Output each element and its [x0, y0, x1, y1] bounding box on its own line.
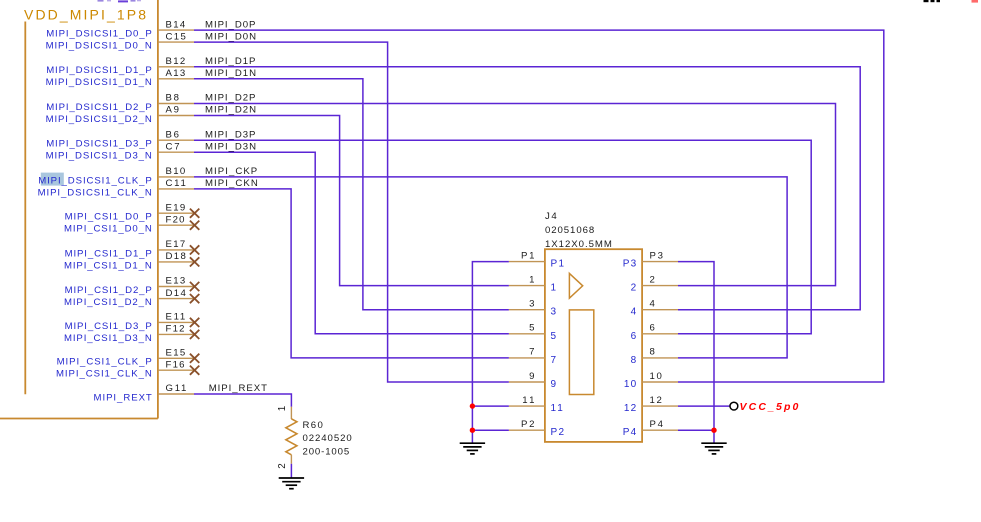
svg-text:E15: E15 [166, 348, 186, 359]
J4 pin 4 (right) [631, 299, 678, 318]
svg-text:2: 2 [277, 463, 288, 468]
pin B6 MIPI_DSICSI1_D3_P [46, 129, 194, 149]
svg-text:MIPI_D2P: MIPI_D2P [205, 93, 255, 104]
wire left GND bus [472, 262, 509, 444]
svg-text:MIPI_D3P: MIPI_D3P [205, 129, 255, 140]
svg-text:MIPI_CKP: MIPI_CKP [205, 166, 257, 177]
J4 pin 10 (right) [624, 371, 678, 390]
svg-text:2: 2 [650, 274, 655, 285]
J4 pin P3 (right) [623, 250, 678, 269]
svg-text:MIPI_CSI1_D2_N: MIPI_CSI1_D2_N [64, 297, 152, 308]
svg-text:MIPI_D0N: MIPI_D0N [205, 31, 256, 42]
svg-text:9: 9 [529, 371, 534, 382]
pin F20 MIPI_CSI1_D0_N [64, 214, 199, 234]
ground right of J4 [701, 443, 726, 454]
svg-text:E11: E11 [166, 312, 186, 323]
ground below R60 [279, 478, 304, 489]
J4 pin 3 (left) [509, 299, 557, 318]
pin E17 MIPI_CSI1_D1_P [65, 239, 200, 259]
pin C15 MIPI_DSICSI1_D0_N [46, 31, 194, 51]
highlight on MIPI of MIPI_DSICSI1_CLK_P [41, 173, 64, 186]
resistor R60 pin 1 stub [290, 407, 292, 419]
J4 key rectangle [569, 310, 593, 395]
svg-text:11: 11 [551, 403, 564, 414]
svg-text:10: 10 [650, 371, 662, 382]
svg-text:D14: D14 [166, 288, 187, 299]
cropped black text remnant top-right [924, 0, 941, 2]
connector J4 body [545, 249, 642, 442]
svg-text:3: 3 [551, 307, 557, 318]
svg-text:D18: D18 [166, 251, 186, 262]
J4 polarity triangle [569, 273, 582, 298]
svg-text:MIPI_DSICSI1_CLK_N: MIPI_DSICSI1_CLK_N [38, 187, 152, 198]
svg-text:C15: C15 [166, 31, 186, 42]
svg-text:12: 12 [624, 403, 637, 414]
svg-text:E17: E17 [166, 239, 186, 250]
wire MIPI_D0P [194, 30, 884, 382]
junction P2 [470, 428, 475, 433]
svg-text:E19: E19 [166, 202, 186, 213]
wire MIPI_D3N [194, 152, 509, 334]
svg-text:8: 8 [650, 347, 655, 358]
svg-text:B12: B12 [166, 56, 186, 67]
svg-text:1: 1 [277, 406, 288, 411]
cropped purple net-label remnant top-left [98, 0, 142, 2]
wire MIPI_D2N [194, 116, 509, 286]
J4 pin 9 (left) [509, 371, 557, 390]
J4 pin 12 (right) [624, 395, 678, 414]
pin B8 MIPI_DSICSI1_D2_P [46, 93, 194, 113]
wire MIPI_D0N [194, 42, 509, 382]
pin E11 MIPI_CSI1_D3_P [65, 312, 200, 332]
svg-text:A13: A13 [166, 68, 186, 79]
svg-text:2: 2 [631, 283, 637, 294]
svg-text:R60: R60 [303, 420, 323, 431]
svg-text:8: 8 [631, 355, 637, 366]
svg-text:VDD_MIPI_1P8: VDD_MIPI_1P8 [24, 7, 146, 23]
svg-text:6: 6 [631, 331, 637, 342]
wire R60 to ground [290, 464, 292, 478]
wire MIPI_D1P [194, 67, 860, 310]
svg-text:7: 7 [551, 355, 557, 366]
svg-text:P1: P1 [551, 259, 565, 270]
svg-text:MIPI_CSI1_D1_P: MIPI_CSI1_D1_P [65, 248, 152, 259]
svg-text:E13: E13 [166, 276, 186, 287]
cropped red mark top-right [972, 0, 979, 3]
wire MIPI_CKN [194, 189, 509, 358]
svg-text:F16: F16 [166, 359, 185, 370]
pin E13 MIPI_CSI1_D2_P [65, 276, 200, 296]
svg-text:B10: B10 [166, 166, 186, 177]
resistor R60 pin 2 stub [290, 455, 292, 464]
svg-text:MIPI_DSICSI1_D0_P: MIPI_DSICSI1_D0_P [46, 29, 152, 40]
J4 pin P4 (right) [623, 419, 678, 438]
svg-text:11: 11 [522, 395, 534, 406]
junction pin11 [470, 403, 475, 408]
svg-text:J4: J4 [545, 211, 557, 222]
J4 pin 6 (right) [631, 323, 678, 342]
svg-text:MIPI_D1P: MIPI_D1P [205, 56, 255, 67]
wire pin11 to bus [472, 405, 509, 407]
pin C7 MIPI_DSICSI1_D3_N [46, 141, 194, 161]
wire P2 to bus [472, 429, 509, 431]
svg-text:F12: F12 [166, 324, 185, 335]
svg-text:MIPI_CSI1_CLK_P: MIPI_CSI1_CLK_P [57, 357, 152, 368]
J4 pin P2 (left) [509, 419, 565, 438]
wire pin12 to VCC [678, 405, 730, 407]
J4 pin 2 (right) [631, 274, 678, 293]
svg-text:3: 3 [529, 299, 534, 310]
power net VDD_MIPI_1P8 vertical line [24, 22, 26, 395]
pin F12 MIPI_CSI1_D3_N [64, 324, 199, 344]
pin B12 MIPI_DSICSI1_D1_P [46, 56, 194, 76]
svg-text:B14: B14 [166, 19, 186, 30]
svg-text:MIPI_DSICSI1_CLK_P: MIPI_DSICSI1_CLK_P [38, 175, 152, 186]
svg-text:MIPI_DSICSI1_D3_N: MIPI_DSICSI1_D3_N [46, 151, 152, 162]
IC part body bottom edge [0, 418, 158, 420]
svg-text:MIPI_CKN: MIPI_CKN [205, 178, 258, 189]
svg-text:MIPI_CSI1_D3_P: MIPI_CSI1_D3_P [65, 321, 152, 332]
svg-text:MIPI_CSI1_D2_P: MIPI_CSI1_D2_P [65, 285, 152, 296]
pin A9 MIPI_DSICSI1_D2_N [46, 105, 194, 125]
J4 pin 5 (left) [509, 323, 557, 342]
pin B10 MIPI_DSICSI1_CLK_P [38, 166, 194, 186]
svg-text:5: 5 [551, 331, 557, 342]
J4 pin P1 (left) [509, 250, 565, 269]
svg-text:4: 4 [631, 307, 637, 318]
svg-text:MIPI_D2N: MIPI_D2N [205, 105, 256, 116]
wire right GND bus [678, 262, 714, 444]
J4 pin 7 (left) [509, 347, 557, 366]
svg-text:P3: P3 [623, 259, 637, 270]
svg-text:MIPI_CSI1_D1_N: MIPI_CSI1_D1_N [64, 260, 152, 271]
svg-text:02240520: 02240520 [303, 433, 352, 444]
svg-text:MIPI_REXT: MIPI_REXT [209, 383, 267, 394]
J4 pin 8 (right) [631, 347, 678, 366]
J4 pin 11 (left) [509, 395, 563, 414]
resistor R60 body zigzag [286, 419, 297, 455]
svg-text:7: 7 [529, 347, 534, 358]
wire MIPI_D3P [194, 140, 811, 334]
svg-text:1: 1 [529, 274, 534, 285]
svg-text:6: 6 [650, 323, 655, 334]
pin G11 MIPI_REXT [94, 383, 195, 403]
svg-text:MIPI_CSI1_D3_N: MIPI_CSI1_D3_N [64, 333, 152, 344]
pin E15 MIPI_CSI1_CLK_P [57, 348, 200, 368]
svg-text:1X12X0.5MM: 1X12X0.5MM [545, 239, 612, 250]
junction P4 [711, 428, 716, 433]
pin C11 MIPI_DSICSI1_CLK_N [38, 178, 194, 198]
wire MIPI_REXT [194, 394, 291, 407]
svg-text:G11: G11 [166, 383, 187, 394]
svg-text:MIPI_DSICSI1_D3_P: MIPI_DSICSI1_D3_P [46, 139, 152, 150]
svg-text:4: 4 [650, 299, 656, 310]
wire MIPI_CKP [194, 177, 787, 358]
svg-text:9: 9 [551, 379, 557, 390]
svg-text:MIPI_DSICSI1_D0_N: MIPI_DSICSI1_D0_N [46, 41, 152, 52]
svg-text:1: 1 [551, 283, 557, 294]
svg-text:MIPI_DSICSI1_D1_N: MIPI_DSICSI1_D1_N [46, 77, 152, 88]
svg-text:MIPI_DSICSI1_D2_P: MIPI_DSICSI1_D2_P [46, 102, 152, 113]
IC part body (left, clipped) right edge [157, 0, 159, 419]
svg-text:P2: P2 [551, 427, 565, 438]
pin D18 MIPI_CSI1_D1_N [64, 251, 199, 271]
svg-text:MIPI_CSI1_D0_N: MIPI_CSI1_D0_N [64, 224, 152, 235]
svg-text:MIPI_D1N: MIPI_D1N [205, 68, 256, 79]
svg-text:MIPI_CSI1_CLK_N: MIPI_CSI1_CLK_N [56, 369, 152, 380]
svg-text:C11: C11 [166, 178, 186, 189]
svg-text:MIPI_REXT: MIPI_REXT [94, 392, 152, 403]
svg-text:200-1005: 200-1005 [303, 446, 350, 457]
wire P4 to bus [678, 429, 714, 431]
pin B14 MIPI_DSICSI1_D0_P [46, 19, 194, 39]
svg-text:MIPI_D3N: MIPI_D3N [205, 141, 256, 152]
pin A13 MIPI_DSICSI1_D1_N [46, 68, 194, 88]
svg-text:P4: P4 [623, 427, 637, 438]
J4 pin 1 (left) [509, 274, 557, 293]
svg-text:02051068: 02051068 [545, 225, 594, 236]
svg-text:F20: F20 [166, 214, 185, 225]
power port VCC_5p0 circle [730, 402, 738, 410]
svg-text:MIPI_CSI1_D0_P: MIPI_CSI1_D0_P [65, 212, 152, 223]
svg-text:5: 5 [529, 323, 534, 334]
wire MIPI_D2P [194, 104, 836, 286]
ground left of J4 [460, 443, 485, 454]
pin F16 MIPI_CSI1_CLK_N [56, 359, 199, 379]
wire MIPI_D1N [194, 79, 509, 310]
svg-text:10: 10 [624, 379, 637, 390]
svg-text:12: 12 [650, 395, 662, 406]
svg-text:VCC_5p0: VCC_5p0 [740, 401, 799, 413]
svg-text:MIPI_D0P: MIPI_D0P [205, 19, 255, 30]
pin E19 MIPI_CSI1_D0_P [65, 202, 200, 222]
pin D14 MIPI_CSI1_D2_N [64, 288, 199, 308]
svg-text:MIPI_DSICSI1_D2_N: MIPI_DSICSI1_D2_N [46, 114, 152, 125]
svg-text:MIPI_DSICSI1_D1_P: MIPI_DSICSI1_D1_P [46, 65, 152, 76]
